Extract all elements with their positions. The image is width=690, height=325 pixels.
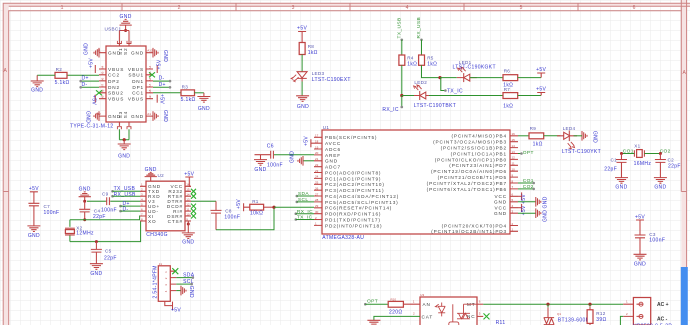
- connector J1 body: [158, 266, 170, 302]
- net label TX_USB vertical: [396, 17, 403, 55]
- svg-text:+5V: +5V: [536, 86, 546, 92]
- wire LED1 to R6: [470, 77, 503, 79]
- svg-text:+5V: +5V: [89, 58, 95, 68]
- svg-text:GND: GND: [118, 154, 130, 160]
- svg-text:15: 15: [186, 188, 190, 192]
- svg-text:S4: S4: [123, 111, 128, 118]
- U2 left pin stubs: [140, 186, 146, 221]
- resistor R12: [587, 304, 607, 325]
- svg-text:GND: GND: [634, 261, 646, 267]
- net label OPT at R10: [364, 298, 388, 305]
- junction triac node: [546, 303, 549, 306]
- svg-text:PC2(ADC2/PCINT10): PC2(ADC2/PCINT10): [325, 182, 385, 187]
- svg-text:+5V: +5V: [521, 205, 527, 215]
- svg-text:PC3(ADC3/PCINT11): PC3(ADC3/PCINT11): [325, 188, 384, 193]
- svg-text:100nF: 100nF: [224, 215, 240, 221]
- frame column tick 4|5: [463, 3, 465, 11]
- frame column tick 3|4: [349, 3, 351, 11]
- ground right bottom of USBC1 (rotated): [153, 110, 168, 122]
- svg-text:28: 28: [315, 198, 319, 202]
- junction C4 top node: [83, 200, 86, 203]
- svg-text:GND: GND: [182, 240, 194, 246]
- svg-text:PC6(RESET#/PCINT14): PC6(RESET#/PCINT14): [325, 206, 392, 211]
- svg-text:VCC: VCC: [495, 194, 507, 199]
- frame band fill top: [3, 3, 690, 6]
- capacitor C7 with supply: [27, 186, 59, 239]
- wire LED3 to ground: [301, 82, 303, 96]
- resistor R1: [250, 199, 274, 217]
- svg-text:PD0(RXD/PCINT16): PD0(RXD/PCINT16): [325, 212, 381, 217]
- svg-text:B9: B9: [101, 95, 105, 99]
- svg-text:B4: B4: [101, 65, 105, 69]
- svg-text:13: 13: [512, 150, 516, 154]
- ground for LED3: [296, 96, 309, 110]
- junction C4 bottom node: [83, 218, 86, 221]
- svg-text:TX_IC: TX_IC: [447, 88, 463, 94]
- svg-text:R2: R2: [56, 67, 63, 72]
- supply +5V right VBUS top: [157, 59, 163, 73]
- junction TX node: [438, 76, 441, 79]
- supply +5V for R7: [536, 86, 546, 95]
- wire MT to AC terminal: [477, 303, 623, 305]
- net stub RX_IC: [382, 96, 403, 113]
- svg-text:PC4(ADC4/SDA/PCINT12): PC4(ADC4/SDA/PCINT12): [325, 194, 399, 199]
- wire CAT to ground: [374, 316, 420, 320]
- supply +5V for AVCC: [303, 136, 314, 148]
- svg-text:+5V: +5V: [536, 67, 546, 73]
- svg-text:26: 26: [315, 187, 319, 191]
- svg-text:1kΩ: 1kΩ: [533, 141, 543, 147]
- svg-text:3: 3: [292, 5, 295, 11]
- svg-text:CO1: CO1: [523, 178, 534, 184]
- svg-text:R5: R5: [427, 56, 434, 61]
- svg-text:R7: R7: [504, 87, 511, 92]
- svg-text:LED4: LED4: [563, 126, 576, 131]
- resistor R3: [153, 85, 204, 103]
- svg-text:+5V: +5V: [635, 214, 645, 220]
- net stub TX_IC: [441, 78, 463, 95]
- wire R8 to LED3: [301, 55, 303, 72]
- wire reset node to PC6: [274, 206, 314, 208]
- svg-text:4: 4: [406, 5, 409, 11]
- wire node to LED2: [402, 95, 416, 97]
- resistor R7: [503, 87, 518, 109]
- svg-text:GND: GND: [591, 131, 597, 143]
- wire bottom shield net: [119, 129, 129, 139]
- LED LED3: [291, 71, 351, 83]
- svg-text:220Ω: 220Ω: [389, 309, 402, 315]
- USBC1 pin numbers left column: [101, 65, 105, 99]
- svg-text:22pF: 22pF: [93, 214, 106, 220]
- wire C8 bottom loop to reset node: [216, 207, 274, 230]
- ground for LED4 (rotated): [574, 131, 598, 143]
- pin contact marks bottom shield: [117, 127, 131, 130]
- svg-text:GND: GND: [31, 88, 43, 94]
- svg-text:11: 11: [186, 207, 189, 211]
- svg-text:+5V: +5V: [297, 26, 307, 32]
- svg-text:19: 19: [315, 145, 319, 149]
- svg-text:2.54-1*4PFM: 2.54-1*4PFM: [153, 265, 159, 298]
- svg-text:GND: GND: [494, 211, 507, 216]
- J1 pin numbers: [164, 271, 168, 292]
- svg-text:(PCINT21/OC0B/T1)PD5: (PCINT21/OC0B/T1)PD5: [438, 175, 507, 180]
- svg-text:C9: C9: [102, 191, 109, 196]
- no-connect SBU2: [96, 90, 102, 95]
- ground right top of USBC1 (rotated): [153, 48, 168, 62]
- ground for C5: [90, 264, 103, 277]
- U1 pin labels right: [427, 134, 507, 235]
- junction RX node: [400, 94, 403, 97]
- svg-text:BT139-600E: BT139-600E: [558, 317, 590, 323]
- svg-text:AREF: AREF: [325, 153, 341, 158]
- svg-text:GND: GND: [188, 286, 194, 298]
- svg-text:C3: C3: [649, 232, 656, 237]
- svg-text:LTST-C190YKT: LTST-C190YKT: [562, 149, 601, 155]
- resistor R9: [518, 126, 560, 148]
- svg-text:AC +: AC +: [657, 302, 669, 308]
- svg-text:DP2: DP2: [108, 79, 120, 84]
- svg-text:22pF: 22pF: [668, 163, 681, 169]
- svg-text:(PCINT2/SS/OC1B)PB2: (PCINT2/SS/OC1B)PB2: [441, 146, 507, 151]
- svg-text:GND: GND: [297, 104, 309, 110]
- svg-text:RX_USB: RX_USB: [416, 17, 422, 39]
- U2 pin numbers: [141, 183, 190, 222]
- resistor R2: [37, 67, 99, 86]
- svg-text:5: 5: [520, 5, 523, 11]
- svg-text:A7: A7: [148, 83, 152, 87]
- supply +5V left VBUS top: [89, 58, 96, 73]
- net label SDA at U1: [296, 191, 315, 197]
- svg-text:B12: B12: [96, 112, 102, 116]
- svg-text:GND: GND: [84, 43, 90, 55]
- frame band fill right: [681, 0, 686, 267]
- svg-text:VBUS: VBUS: [108, 67, 124, 72]
- svg-text:GND: GND: [494, 200, 507, 205]
- svg-text:24: 24: [315, 175, 319, 179]
- svg-text:DN2: DN2: [108, 85, 120, 90]
- svg-text:11: 11: [512, 162, 515, 166]
- svg-text:GND: GND: [162, 110, 168, 122]
- ground for U1 GND 2 (rotated): [518, 208, 548, 222]
- capacitor C5: [91, 242, 117, 264]
- svg-text:(PCINT20/XCK/T0)PD4: (PCINT20/XCK/T0)PD4: [442, 223, 507, 228]
- svg-text:+5V: +5V: [157, 59, 163, 69]
- svg-text:+5V: +5V: [91, 95, 97, 105]
- U1 pin numbers left: [315, 134, 319, 226]
- svg-text:+5V: +5V: [159, 94, 165, 104]
- svg-text:5.1kΩ: 5.1kΩ: [55, 80, 70, 86]
- crystal X2: [65, 220, 94, 242]
- J1 pin stubs: [165, 271, 177, 305]
- svg-text:(PCINT19/OC2B/INT1)PD3: (PCINT19/OC2B/INT1)PD3: [431, 229, 507, 234]
- svg-text:22pF: 22pF: [104, 255, 117, 261]
- svg-text:C6: C6: [267, 143, 274, 149]
- wire shield bus: [119, 31, 129, 47]
- net label D+ at U2: [119, 201, 140, 207]
- net label D- at U2: [119, 206, 140, 212]
- svg-text:AC -: AC -: [657, 317, 668, 323]
- svg-text:SBU2: SBU2: [108, 91, 124, 96]
- svg-text:1kΩ: 1kΩ: [427, 61, 437, 67]
- net label D+ left: [79, 76, 99, 83]
- svg-text:25: 25: [315, 181, 319, 185]
- svg-text:(PCINT22/OC0A/AIN0)PD6: (PCINT22/OC0A/AIN0)PD6: [431, 169, 507, 174]
- no-connect DCD#: [191, 204, 196, 209]
- wire C9 to V3: [110, 200, 140, 202]
- wire node to LED1: [440, 77, 457, 79]
- svg-text:LTST-C190TBKT: LTST-C190TBKT: [414, 103, 457, 109]
- supply +5V for R6: [536, 67, 546, 78]
- svg-text:LED2: LED2: [414, 80, 427, 85]
- svg-text:XO: XO: [148, 219, 156, 224]
- net label D+ right: [153, 82, 171, 89]
- terminal block X3 body: [633, 298, 650, 325]
- net label CO2 at PB6: [518, 184, 535, 190]
- svg-text:GND: GND: [131, 51, 144, 56]
- svg-text:OPT: OPT: [367, 298, 378, 304]
- capacitor C6: [255, 143, 315, 168]
- supply +5V left VBUS bottom: [91, 95, 97, 106]
- svg-text:GND: GND: [542, 210, 548, 222]
- USBC1 right pin stubs: [146, 53, 153, 116]
- svg-text:GND: GND: [542, 196, 548, 208]
- svg-text:DN1: DN1: [132, 79, 144, 84]
- svg-text:CAT: CAT: [422, 314, 434, 319]
- svg-text:+5V: +5V: [29, 186, 39, 192]
- svg-text:R9: R9: [530, 126, 537, 131]
- svg-text:X2: X2: [76, 225, 82, 230]
- svg-text:39Ω: 39Ω: [596, 317, 606, 323]
- capacitor C9: [101, 191, 117, 213]
- junction C10 right: [659, 152, 662, 155]
- svg-text:PC5(ADC5/SCL/PCINT13): PC5(ADC5/SCL/PCINT13): [325, 200, 399, 205]
- net label CO2 at X1: [644, 149, 670, 155]
- ground for C1: [615, 178, 628, 191]
- svg-text:CC1: CC1: [132, 91, 144, 96]
- svg-text:A6: A6: [148, 77, 152, 81]
- U1 pin numbers right: [512, 132, 516, 232]
- U3 internal LED: [435, 303, 445, 317]
- wire R6 to +5V: [518, 77, 541, 79]
- U3 internal triac: [449, 304, 477, 325]
- svg-text:OPT: OPT: [523, 150, 534, 156]
- svg-text:R4: R4: [407, 56, 414, 61]
- junction bottom shield: [123, 138, 126, 141]
- supply +5V at J1 bottom: [171, 302, 181, 314]
- svg-text:TX_USB: TX_USB: [396, 17, 402, 38]
- svg-text:12: 12: [512, 156, 516, 160]
- terminal X3 pin numbers: [626, 300, 628, 316]
- svg-text:A9: A9: [148, 95, 152, 99]
- svg-text:12: 12: [186, 202, 190, 206]
- svg-text:GND: GND: [90, 271, 102, 277]
- supply +5V right VBUS bottom: [157, 94, 164, 104]
- svg-text:B7: B7: [101, 83, 105, 87]
- svg-text:GND: GND: [131, 114, 144, 119]
- capacitor C2: [655, 154, 681, 178]
- svg-text:GND: GND: [85, 111, 91, 123]
- USBC1 pin numbers right column: [148, 65, 152, 99]
- capacitor C3 with supply: [635, 214, 666, 254]
- svg-text:A12: A12: [147, 49, 153, 53]
- optocoupler U3 body: [420, 297, 477, 325]
- svg-text:14: 14: [186, 193, 190, 197]
- junction R12 node: [588, 303, 591, 306]
- ground for R2: [31, 75, 44, 93]
- wire LED2 to R7: [429, 95, 503, 97]
- svg-text:100nF: 100nF: [44, 210, 60, 216]
- supply +5V for R1: [236, 199, 250, 212]
- wire XTAL top to XI: [70, 216, 140, 220]
- svg-text:U2: U2: [158, 173, 165, 178]
- crystal X1: [634, 144, 652, 168]
- wire C9 net: [87, 200, 106, 202]
- svg-text:(PCINT1/OC1A)PB1: (PCINT1/OC1A)PB1: [451, 151, 507, 156]
- svg-text:PC1(ADC1/PCINT9): PC1(ADC1/PCINT9): [325, 176, 381, 181]
- ground for U1 GND pin (rotated): [290, 151, 315, 166]
- frame column tick 1|2: [121, 3, 123, 11]
- svg-text:A1: A1: [147, 112, 151, 116]
- svg-text:AVCC: AVCC: [325, 141, 341, 146]
- svg-text:(PCINT6/XTAL1/TOSC1)PB6: (PCINT6/XTAL1/TOSC1)PB6: [427, 187, 507, 192]
- net label CO1 at X1: [622, 149, 635, 155]
- svg-text:VBUS: VBUS: [128, 67, 144, 72]
- wire XTAL bottom to XO: [70, 221, 141, 242]
- svg-text:A4: A4: [148, 65, 152, 69]
- ground for C2: [654, 178, 667, 191]
- svg-text:GND: GND: [290, 151, 296, 163]
- svg-text:R10: R10: [391, 298, 397, 302]
- svg-text:1kΩ: 1kΩ: [308, 50, 318, 56]
- junction CTS ground node: [187, 223, 190, 226]
- no-connect U3 NC: [477, 313, 490, 319]
- svg-text:GND: GND: [254, 167, 266, 173]
- USBC1 left pin stubs: [99, 53, 106, 116]
- ground for C6: [254, 155, 267, 173]
- ground left bottom of USBC1 (rotated): [85, 111, 100, 123]
- svg-text:29: 29: [315, 204, 319, 208]
- svg-text:27: 27: [315, 192, 319, 196]
- svg-text:(PCINT0/CLKO/ICP1)PB0: (PCINT0/CLKO/ICP1)PB0: [435, 157, 507, 162]
- svg-text:X1: X1: [634, 144, 640, 149]
- svg-text:C5: C5: [105, 249, 112, 254]
- svg-text:S2: S2: [123, 48, 128, 55]
- svg-text:C8: C8: [225, 208, 232, 213]
- svg-text:R1: R1: [252, 199, 259, 204]
- svg-text:AN: AN: [423, 302, 431, 307]
- junction on shield net: [124, 29, 127, 32]
- svg-text:CH340G: CH340G: [146, 232, 168, 238]
- no-connect SBU1: [149, 72, 155, 77]
- resistor R10: [388, 298, 420, 316]
- net label D- right: [153, 76, 171, 83]
- svg-text:100nF: 100nF: [649, 238, 665, 244]
- resistor R8: [299, 43, 318, 56]
- terminal X3 pin stubs: [623, 304, 633, 316]
- svg-text:GND: GND: [162, 50, 168, 62]
- svg-text:SBU1: SBU1: [128, 73, 144, 78]
- svg-text:22pF: 22pF: [604, 166, 617, 172]
- svg-text:CC2: CC2: [108, 73, 120, 78]
- U1 pin labels left: [325, 135, 399, 228]
- net label SCL at J1: [176, 279, 194, 285]
- svg-text:16MHz: 16MHz: [634, 161, 652, 167]
- no-connect RI#: [191, 209, 196, 214]
- svg-text:CO2: CO2: [523, 184, 534, 190]
- svg-text:R6: R6: [504, 69, 511, 74]
- svg-text:18: 18: [315, 140, 319, 144]
- capacitor C1: [604, 154, 627, 178]
- wire R4 to LED2 node: [401, 65, 403, 95]
- ground for U2: [182, 221, 195, 246]
- svg-text:Q1: Q1: [557, 312, 561, 316]
- svg-text:R3: R3: [182, 85, 189, 90]
- wire DTR# to C8: [191, 200, 216, 202]
- svg-text:30: 30: [315, 210, 319, 214]
- svg-text:100nF: 100nF: [267, 163, 283, 169]
- svg-text:10: 10: [186, 212, 190, 216]
- connector USBC1 body: [106, 46, 146, 122]
- svg-text:1kΩ: 1kΩ: [407, 61, 417, 67]
- supply +5V for LED3: [297, 26, 307, 43]
- ground left top of USBC1 (rotated): [84, 43, 100, 58]
- svg-text:LED3: LED3: [312, 71, 325, 76]
- ground at J1 pin4 (rotated): [176, 286, 194, 298]
- ground for R3: [197, 93, 210, 112]
- triac Q1 BT139-600E: [544, 304, 590, 325]
- IC U2 CH340G body: [146, 181, 185, 231]
- ground above U2 (inverted flag): [79, 186, 91, 201]
- svg-text:17: 17: [315, 134, 319, 138]
- svg-text:PD2(INT0/PCINT18): PD2(INT0/PCINT18): [325, 223, 382, 228]
- svg-text:C4: C4: [94, 209, 101, 214]
- capacitor C4: [79, 201, 106, 220]
- svg-text:CTS#: CTS#: [168, 219, 183, 224]
- svg-text:13: 13: [186, 198, 190, 202]
- svg-text:TYPE-C-31-M-12: TYPE-C-31-M-12: [70, 124, 114, 130]
- svg-text:R11: R11: [496, 320, 506, 325]
- svg-text:VCC: VCC: [495, 206, 507, 211]
- svg-text:C2: C2: [668, 158, 675, 163]
- terminal X3 contacts: [637, 302, 644, 318]
- frame band fill left: [3, 3, 9, 325]
- LED LED1: [453, 60, 496, 82]
- net label TX_USB at U2: [111, 186, 140, 193]
- svg-text:14: 14: [512, 144, 516, 148]
- svg-text:R8: R8: [308, 44, 315, 49]
- svg-text:R12: R12: [596, 311, 605, 316]
- resistor R6: [503, 69, 518, 89]
- junction reset node: [272, 206, 275, 209]
- svg-text:5.1kΩ: 5.1kΩ: [181, 97, 196, 103]
- resistor R4: [399, 55, 417, 67]
- svg-text:GND: GND: [615, 185, 627, 191]
- ground bottom of USBC1: [118, 140, 131, 160]
- LED LED2: [414, 80, 457, 109]
- ground above U2 flag stem: [145, 167, 157, 181]
- ground top of USBC1 (inverted flag): [120, 14, 132, 31]
- frame column tick 5|6: [577, 3, 579, 11]
- USBC1 bottom shield stubs: [119, 122, 129, 126]
- IC U1 ATMEGA328-AU body: [322, 130, 510, 234]
- svg-text:+5V: +5V: [236, 199, 242, 209]
- svg-text:21: 21: [315, 157, 319, 161]
- svg-text:(PCINT7/XTAL2/TOSC2)PB7: (PCINT7/XTAL2/TOSC2)PB7: [427, 181, 507, 186]
- svg-text:2: 2: [178, 5, 181, 11]
- ground for U3 CAT: [367, 320, 380, 325]
- frame row tick left: [3, 191, 9, 193]
- svg-text:C1: C1: [611, 158, 618, 163]
